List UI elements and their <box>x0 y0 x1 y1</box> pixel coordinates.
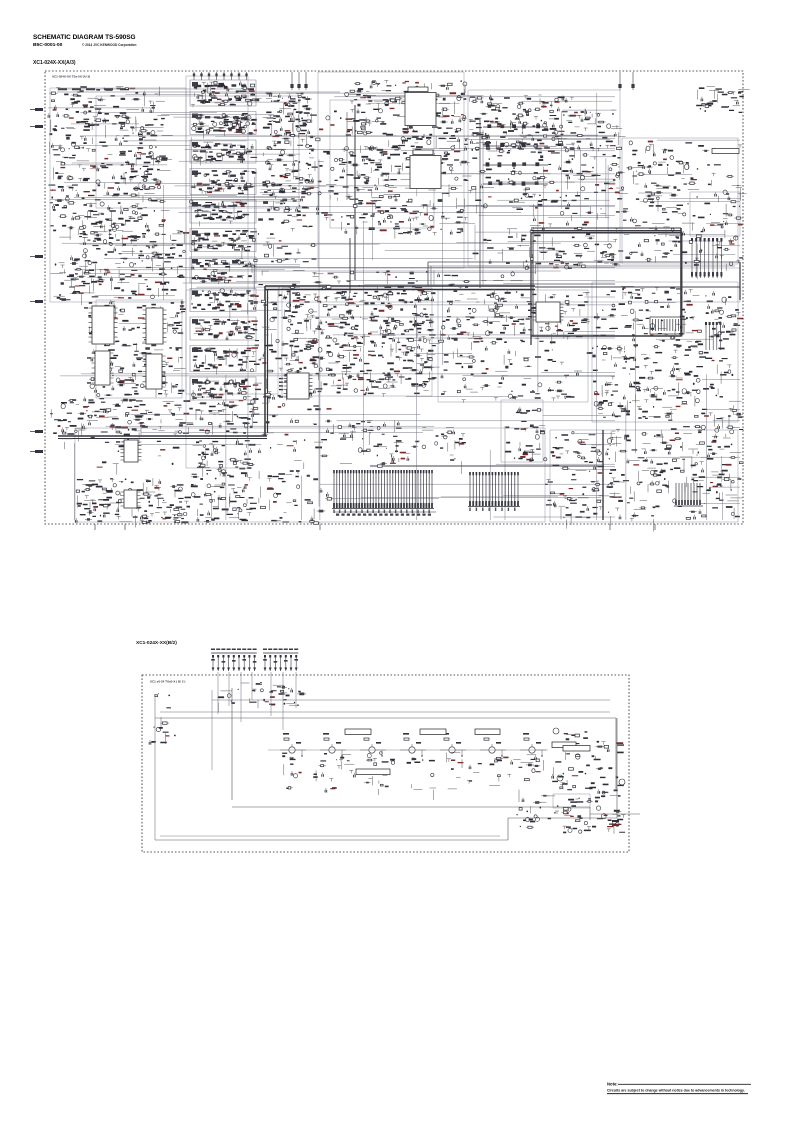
svg-text:XC1-024X-XX TSx-5X (A/ 3): XC1-024X-XX TSx-5X (A/ 3) <box>52 75 90 79</box>
svg-text:Circuits are subject to change: Circuits are subject to change without n… <box>607 1089 745 1093</box>
svg-text:© 2014 JVC KENWOOD Corporation: © 2014 JVC KENWOOD Corporation <box>82 43 136 47</box>
svg-text:SCHEMATIC DIAGRAM TS-590SG: SCHEMATIC DIAGRAM TS-590SG <box>33 34 136 41</box>
svg-text:B5C-0001-00: B5C-0001-00 <box>33 42 63 48</box>
svg-text:XC1-024X-XX(B/2): XC1-024X-XX(B/2) <box>136 640 177 646</box>
svg-text:XC1 x0-24 TXx0-X ( B/ 2 ): XC1 x0-24 TXx0-X ( B/ 2 ) <box>150 680 185 684</box>
svg-text:Note:: Note: <box>607 1082 618 1087</box>
svg-text:XC1-024X-XX(A/3): XC1-024X-XX(A/3) <box>33 60 76 66</box>
